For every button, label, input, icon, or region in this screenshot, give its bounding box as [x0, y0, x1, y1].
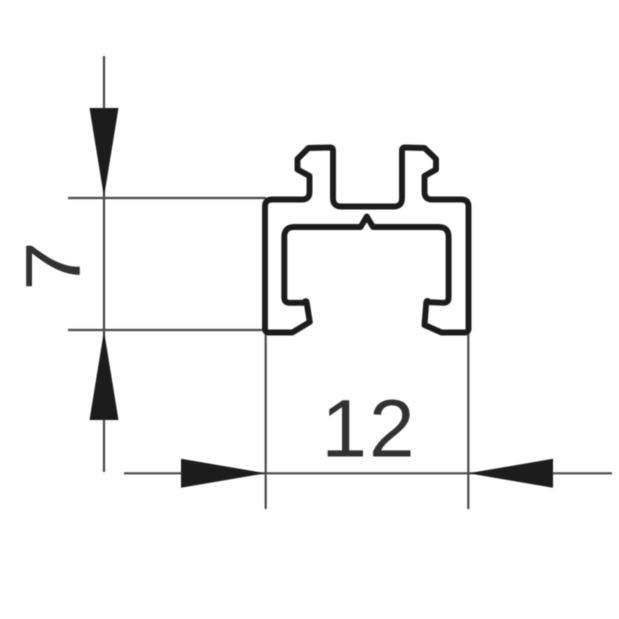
- extension line right (12 dim): [467, 334, 469, 509]
- extension line left (12 dim): [265, 334, 267, 509]
- arrowhead right (12 dim): [181, 459, 266, 488]
- svg-text:7: 7: [9, 241, 97, 290]
- dimension line horizontal (12): [124, 472, 612, 474]
- arrowhead left (12 dim): [468, 459, 553, 488]
- arrowhead down (7 dim): [90, 108, 119, 197]
- extension line lower (bottom of 7 dim): [68, 329, 266, 331]
- arrowhead up (7 dim): [90, 331, 119, 420]
- profile cross-section outline: [265, 148, 469, 333]
- svg-text:12: 12: [321, 384, 416, 475]
- dimension line vertical (7): [103, 56, 105, 472]
- extension line upper (top of 7 dim): [68, 197, 266, 199]
